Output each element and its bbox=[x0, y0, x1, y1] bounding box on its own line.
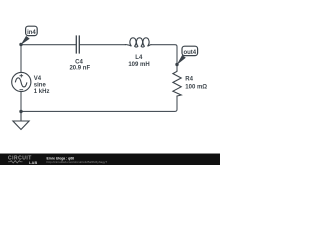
wire top: C4 right plate to L4 bbox=[80, 44, 126, 46]
wire left: node A down to V4 top bbox=[20, 45, 22, 73]
svg-text:20.9 nF: 20.9 nF bbox=[69, 66, 90, 72]
ground junction dot bbox=[19, 110, 22, 113]
flag out4 box bbox=[182, 46, 198, 55]
node A junction dot (top-left) bbox=[19, 43, 22, 46]
V4 labels bbox=[34, 76, 50, 95]
svg-text:1 kHz: 1 kHz bbox=[34, 89, 50, 95]
resistor R4 bbox=[173, 70, 181, 97]
wire: V4 bottom to ground junction bbox=[20, 92, 22, 112]
voltage source V4 bbox=[12, 72, 31, 91]
footer logo zigzag bbox=[8, 161, 23, 163]
flag out4 tail bbox=[177, 55, 186, 65]
capacitor C4 bbox=[76, 35, 79, 53]
svg-text:LAB: LAB bbox=[29, 161, 37, 165]
svg-text:L4: L4 bbox=[135, 55, 143, 61]
ground bbox=[13, 111, 29, 129]
svg-text:V4: V4 bbox=[34, 76, 42, 82]
svg-text:out4: out4 bbox=[183, 50, 196, 56]
footer bar bbox=[0, 154, 220, 165]
flag in4 box bbox=[26, 26, 38, 35]
wire top: node A to C4 left plate bbox=[21, 44, 76, 46]
wire bottom: junction to bottom-right corner up to R4 bbox=[21, 97, 177, 111]
V4 plus sign bbox=[20, 74, 24, 78]
resistor R4 value labels bbox=[185, 77, 207, 91]
wire top: L4 to top-right corner, corner down to resistor bbox=[151, 45, 178, 70]
svg-text:100 mΩ: 100 mΩ bbox=[185, 85, 207, 91]
svg-text:in4: in4 bbox=[27, 30, 36, 36]
inductor L4 bbox=[125, 38, 152, 47]
flag in4 tail bbox=[21, 36, 30, 45]
svg-text:R4: R4 bbox=[185, 77, 193, 83]
svg-text:http://circuitlab.com/circuit/: http://circuitlab.com/circuit/c425a5fc6y… bbox=[47, 160, 108, 164]
V4 minus sign bbox=[20, 89, 24, 91]
capacitor C4 value labels bbox=[69, 60, 90, 72]
svg-text:109 mH: 109 mH bbox=[128, 62, 149, 68]
svg-text:sine: sine bbox=[34, 82, 47, 88]
node out4 junction dot bbox=[175, 63, 178, 66]
inductor L4 value labels bbox=[128, 55, 149, 68]
V4 sine wave bbox=[15, 78, 27, 87]
